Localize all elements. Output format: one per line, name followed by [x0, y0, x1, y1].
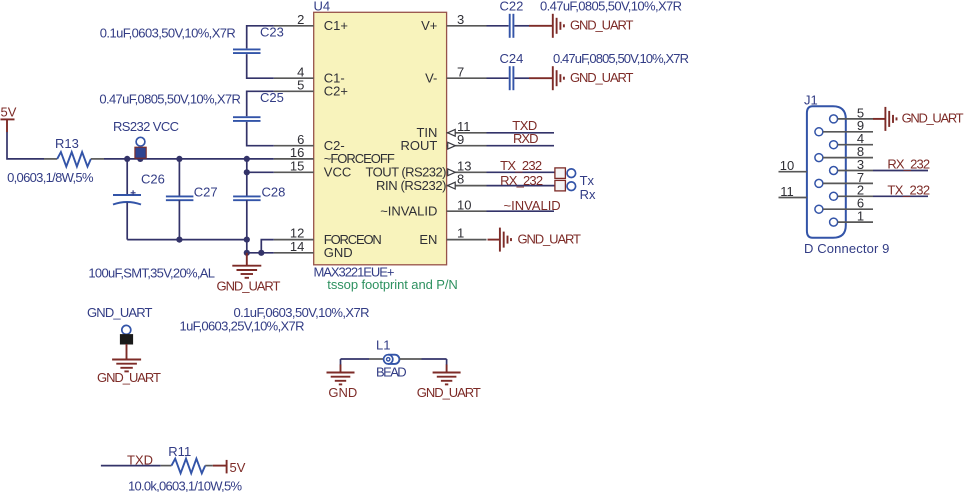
svg-text:BEAD: BEAD [376, 364, 407, 379]
svg-text:GND_UART: GND_UART [417, 385, 481, 400]
junction dot [176, 156, 182, 162]
svg-text:0.47uF,0805,50V,10%,X7R: 0.47uF,0805,50V,10%,X7R [553, 51, 689, 66]
wire bottom bus [127, 239, 247, 241]
J1 pin 10 [779, 158, 807, 173]
svg-text:11: 11 [780, 184, 794, 199]
svg-text:GND_UART: GND_UART [570, 70, 634, 85]
C26 value [88, 265, 215, 280]
C22 value [540, 0, 682, 14]
capacitor C26 [113, 159, 165, 240]
inductor L1 [341, 338, 447, 380]
pin 3 V+ [421, 12, 486, 33]
power port 5V top [1, 105, 17, 133]
svg-text:C22: C22 [500, 0, 524, 14]
svg-text:L1: L1 [376, 338, 390, 353]
wire net RX_232 at J1 [873, 157, 930, 172]
wire VCC bus [104, 158, 274, 160]
pin 5 C2+ [274, 77, 348, 98]
ground GND_UART at J1 pin 5 [873, 107, 964, 131]
wire net RX_232 [487, 173, 555, 188]
svg-text:RIN (RS232): RIN (RS232) [376, 178, 447, 193]
op-amp U4 body [314, 12, 447, 264]
svg-text:RX_232: RX_232 [500, 173, 543, 188]
power port GND_UART flag [87, 305, 153, 360]
capacitor C24 [487, 51, 530, 90]
svg-text:GND_UART: GND_UART [97, 370, 161, 385]
wire VCC pin15 [247, 171, 274, 173]
pin 10 ~INVALID [380, 197, 486, 218]
svg-text:0.47uF,0805,50V,10%,X7R: 0.47uF,0805,50V,10%,X7R [540, 0, 682, 14]
svg-text:C25: C25 [260, 90, 284, 105]
pin 9 ROUT [401, 132, 487, 153]
junction dot [176, 237, 182, 243]
svg-text:GND_UART: GND_UART [518, 231, 582, 246]
power port 5V bottom [213, 460, 246, 475]
port Rx [555, 180, 596, 201]
svg-text:RXD: RXD [513, 131, 539, 146]
C24 value [553, 51, 689, 66]
pin 11 TIN [416, 119, 486, 140]
svg-text:EN: EN [419, 232, 437, 247]
svg-text:R11: R11 [168, 444, 191, 459]
value text 1uF [180, 318, 305, 333]
U4 note text [327, 277, 458, 292]
J1 pin 2 [830, 183, 873, 201]
junction dot [258, 250, 264, 256]
resistor R11 [161, 444, 213, 474]
capacitor C23 [233, 24, 284, 78]
svg-text:GND_UART: GND_UART [570, 18, 634, 33]
pin 2 C1+ [274, 12, 348, 33]
R13 value [7, 170, 94, 185]
junction dot [124, 156, 130, 162]
wire net TXD [487, 118, 555, 133]
svg-text:0.47uF,0805,50V,10%,X7R: 0.47uF,0805,50V,10%,X7R [99, 92, 241, 107]
svg-text:~INVALID: ~INVALID [380, 204, 437, 219]
J1 pin 11 [779, 184, 807, 199]
pin 16 ~FORCEOFF [274, 145, 395, 166]
wire net TX_232 at J1 [873, 182, 930, 197]
svg-text:TX_232: TX_232 [887, 182, 930, 197]
pin 6 C2- [274, 132, 345, 153]
svg-text:14: 14 [290, 239, 304, 254]
ground GND_UART under C28 [217, 253, 281, 294]
svg-text:8: 8 [457, 172, 464, 187]
junction dot [244, 250, 250, 256]
wire FORCEON pin12 [261, 240, 274, 253]
J1 pin 3 [830, 157, 873, 175]
C23 value [100, 26, 236, 41]
svg-text:7: 7 [457, 64, 464, 79]
svg-text:0.1uF,0603,50V,10%,X7R: 0.1uF,0603,50V,10%,X7R [100, 26, 236, 41]
resistor R13 [44, 136, 104, 167]
svg-text:10: 10 [780, 158, 794, 173]
J1 pin 8 [815, 144, 873, 162]
ground GND_UART at EN [488, 228, 582, 252]
svg-text:15: 15 [290, 158, 304, 173]
J1 pin 1 [830, 209, 873, 227]
svg-text:0,0603,1/8W,5%: 0,0603,1/8W,5% [7, 170, 94, 185]
pin 7 V- [425, 64, 486, 85]
svg-text:GND: GND [328, 385, 357, 400]
pin 15 VCC [274, 158, 351, 179]
svg-text:2: 2 [297, 12, 304, 27]
svg-text:5V: 5V [230, 460, 246, 475]
power port RS232 VCC [113, 119, 179, 158]
svg-text:RX_232: RX_232 [887, 157, 930, 172]
pin 14 GND [274, 239, 353, 260]
junction dot [244, 237, 250, 243]
svg-text:GND: GND [324, 245, 353, 260]
svg-text:5V: 5V [1, 105, 17, 120]
connector J1 shell [804, 92, 889, 256]
capacitor C27 [166, 159, 218, 240]
svg-text:Tx: Tx [580, 173, 595, 188]
J1 pin 4 [830, 131, 873, 149]
ground GND_UART at L1 right [417, 359, 481, 400]
J1 pin 6 [815, 196, 873, 214]
port Tx [555, 168, 595, 188]
svg-text:~INVALID: ~INVALID [504, 198, 561, 213]
svg-text:10: 10 [457, 197, 471, 212]
svg-text:GND_UART: GND_UART [87, 305, 153, 320]
ground GND_UART at C22 [529, 14, 634, 38]
svg-text:C26: C26 [141, 172, 165, 187]
pin 12 FORCEON [274, 226, 382, 247]
svg-text:1: 1 [457, 226, 464, 241]
svg-text:TXD: TXD [127, 452, 153, 467]
svg-text:C1+: C1+ [324, 18, 348, 33]
capacitor C22 [487, 0, 530, 38]
pin 8 RIN (RS232) [376, 172, 487, 193]
wire net TX_232 [487, 158, 555, 173]
svg-text:VCC: VCC [324, 165, 351, 180]
svg-text:TX_232: TX_232 [500, 158, 542, 173]
J1 pin 7 [815, 170, 873, 188]
svg-text:5: 5 [297, 77, 304, 92]
svg-text:C23: C23 [260, 24, 284, 39]
svg-text:C28: C28 [262, 184, 286, 199]
R11 value [128, 479, 242, 492]
svg-text:R13: R13 [55, 136, 79, 151]
svg-text:1: 1 [857, 209, 864, 224]
C25 value [99, 92, 241, 107]
pin 1 EN [419, 226, 486, 247]
ground GND at L1 left [327, 359, 358, 400]
svg-text:D Connector 9: D Connector 9 [804, 241, 889, 256]
J1 pin 9 [815, 118, 873, 136]
U4 designator [314, 0, 331, 14]
svg-text:100uF,SMT,35V,20%,AL: 100uF,SMT,35V,20%,AL [88, 265, 215, 280]
svg-text:Rx: Rx [580, 187, 596, 202]
svg-text:C27: C27 [194, 184, 218, 199]
svg-text:3: 3 [457, 12, 464, 27]
wire net TXD bottom [101, 452, 161, 467]
junction dot [137, 156, 143, 162]
ground GND_UART at C24 [529, 66, 634, 90]
value text 0.1uF [234, 305, 370, 320]
pin 4 C1- [274, 64, 345, 85]
svg-text:V+: V+ [421, 18, 437, 33]
svg-text:V-: V- [425, 71, 437, 86]
svg-text:10.0k,0603,1/10W,5%: 10.0k,0603,1/10W,5% [128, 479, 242, 492]
svg-text:C2+: C2+ [324, 84, 348, 99]
capacitor C28 [233, 159, 285, 253]
U4 part number MAX3221EUE+ [314, 265, 395, 280]
svg-text:J1: J1 [804, 92, 818, 107]
svg-text:C24: C24 [500, 51, 524, 66]
capacitor C25 [233, 90, 284, 146]
svg-text:GND_UART: GND_UART [902, 111, 964, 126]
svg-text:9: 9 [457, 132, 464, 147]
svg-text:1uF,0603,25V,10%,X7R: 1uF,0603,25V,10%,X7R [180, 318, 305, 333]
junction dot [244, 156, 250, 162]
svg-text:ROUT: ROUT [401, 138, 438, 153]
J1 pin 5 [830, 105, 873, 123]
wire GND pin14 [247, 252, 274, 254]
junction dot [244, 169, 250, 175]
svg-text:tssop footprint and P/N: tssop footprint and P/N [327, 277, 458, 292]
svg-text:GND_UART: GND_UART [217, 279, 281, 294]
pin 13 TOUT (RS232) [366, 158, 487, 179]
svg-text:U4: U4 [314, 0, 331, 14]
wire net RXD [487, 131, 555, 146]
wire net ~INVALID [487, 198, 561, 213]
wire 5V to R13 [7, 132, 44, 159]
svg-text:RS232 VCC: RS232 VCC [113, 119, 179, 134]
ground GND_UART bottom left [97, 360, 161, 386]
